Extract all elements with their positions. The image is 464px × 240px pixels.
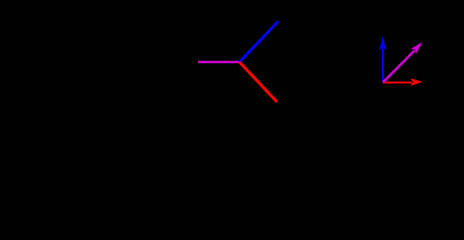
vector arrow red (horizontal) bbox=[383, 78, 423, 86]
vector arrow magenta (diagonal resultant) bbox=[383, 42, 423, 82]
vector arrow blue (vertical) bbox=[379, 36, 386, 82]
refracted ray blue bbox=[240, 22, 279, 63]
refracted ray red bbox=[240, 62, 278, 102]
incident ray (magenta) bbox=[198, 61, 240, 64]
